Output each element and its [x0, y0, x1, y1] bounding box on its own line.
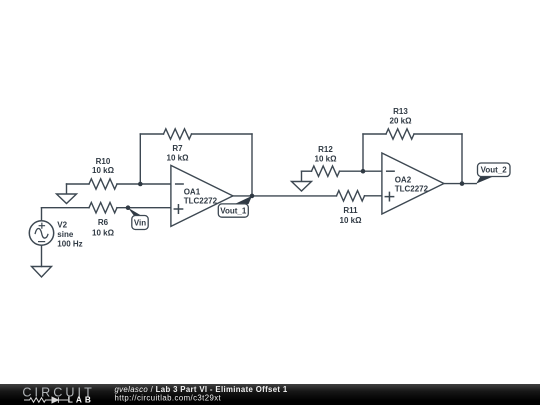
svg-text:LAB: LAB: [68, 395, 94, 405]
resistor R7: [164, 129, 192, 139]
svg-text:10 kΩ: 10 kΩ: [167, 154, 190, 163]
svg-text:10 kΩ: 10 kΩ: [92, 229, 115, 238]
op-amp OA2: [382, 153, 444, 214]
resistor R11: [337, 191, 365, 201]
wire feedback top left: [140, 133, 163, 135]
wire feedback2 top right: [414, 133, 462, 135]
svg-text:TLC2272: TLC2272: [395, 184, 429, 193]
svg-text:OA2: OA2: [395, 176, 412, 185]
wire V2 top to R6 row: [41, 208, 43, 221]
svg-text:sine: sine: [57, 230, 74, 239]
junction node OA1 - input: [138, 182, 143, 187]
wire R6 left: [42, 207, 90, 209]
node flag Vout_2: [476, 163, 510, 184]
wire R11 right to OA2 + input: [365, 195, 382, 197]
svg-text:20 kΩ: 20 kΩ: [390, 117, 413, 126]
label R6 value: [92, 218, 115, 237]
svg-text:R11: R11: [343, 206, 358, 215]
wire R6 right to OA1 + input: [117, 207, 171, 209]
svg-text:10 kΩ: 10 kΩ: [340, 216, 363, 225]
junction node Vin: [126, 205, 131, 210]
wire R10 right to OA1 - input: [117, 183, 171, 185]
svg-text:Vout_1: Vout_1: [220, 207, 247, 216]
svg-text:OA1: OA1: [184, 188, 201, 197]
CircuitLab logo wire with resistor and diode: [24, 397, 68, 403]
label V2 value: [57, 221, 82, 249]
svg-text:Vin: Vin: [134, 219, 146, 228]
svg-text:Vout_2: Vout_2: [481, 166, 508, 175]
junction node Vout_2: [460, 181, 465, 186]
svg-text:R13: R13: [393, 107, 408, 116]
svg-text:R6: R6: [98, 218, 109, 227]
resistor R12: [312, 166, 340, 176]
svg-text:R10: R10: [96, 157, 111, 166]
label R11 value: [340, 206, 363, 225]
wire feedback right vertical: [251, 134, 253, 196]
svg-text:10 kΩ: 10 kΩ: [315, 154, 338, 163]
svg-text:100 Hz: 100 Hz: [57, 239, 82, 248]
label R13 value: [390, 107, 413, 126]
svg-text:R7: R7: [172, 144, 183, 153]
wire R12 right to OA2 - input: [340, 170, 382, 172]
footer bar: [0, 384, 540, 405]
label OA1: [184, 188, 218, 206]
wire feedback2 right vertical: [461, 134, 463, 184]
op-amp OA1: [171, 165, 233, 226]
ground (R12): [292, 171, 312, 191]
wire feedback left vertical: [139, 134, 141, 184]
svg-text:TLC2272: TLC2272: [184, 196, 218, 205]
resistor R10: [89, 179, 117, 189]
wire V2 bottom to ground: [41, 245, 43, 266]
voltage source V2: [29, 221, 53, 245]
wire ground to R12: [302, 170, 312, 172]
wire OA2 output: [444, 183, 476, 185]
wire feedback2 left vertical: [362, 134, 364, 171]
svg-text:http://circuitlab.com/c3t29xt: http://circuitlab.com/c3t29xt: [115, 394, 222, 403]
wire OA1 output to R11: [233, 195, 337, 197]
junction node Vout_1: [250, 194, 255, 199]
label R12 value: [315, 145, 338, 163]
node flag Vout_1: [218, 196, 252, 217]
junction node OA2 - input: [361, 169, 366, 174]
label R7 value: [167, 144, 190, 163]
svg-text:V2: V2: [57, 221, 67, 230]
svg-text:R12: R12: [318, 145, 333, 154]
wire ground to R10: [67, 183, 90, 185]
label R10 value: [92, 157, 115, 175]
resistor R6: [89, 203, 117, 213]
wire feedback2 top left: [363, 133, 386, 135]
ground (below V2): [32, 267, 52, 278]
node flag Vin: [128, 208, 148, 230]
ground (R10): [57, 184, 77, 204]
resistor R13: [386, 129, 414, 139]
svg-text:10 kΩ: 10 kΩ: [92, 166, 115, 175]
label OA2: [395, 176, 429, 194]
wire feedback top right: [192, 133, 253, 135]
